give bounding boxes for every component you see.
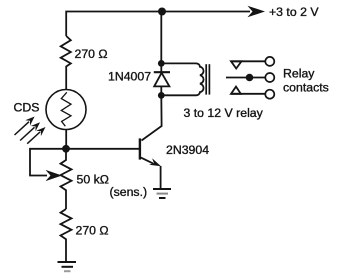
wire pot wiper [30, 149, 66, 176]
svg-text:2N3904: 2N3904 [166, 143, 209, 157]
svg-text:+3 to 2 V: +3 to 2 V [269, 5, 319, 19]
node diode top [158, 60, 165, 67]
svg-text:3 to 12 V relay: 3 to 12 V relay [184, 106, 264, 120]
relay core line 2 [208, 64, 210, 94]
contact NO terminal circle [265, 90, 274, 99]
relay contact NC line [231, 60, 265, 62]
resistor R1 270 ohm (top) [61, 36, 71, 70]
svg-text:50 kΩ: 50 kΩ [77, 173, 109, 187]
power arrow [248, 6, 266, 17]
transistor Q1 2N3904 [139, 138, 141, 159]
relay contact common line [226, 77, 265, 79]
light arrow 2 [20, 122, 40, 140]
svg-text:270 Ω: 270 Ω [76, 224, 109, 238]
wire node A to transistor base [66, 148, 139, 150]
relay coil K1 [161, 63, 203, 95]
node diode bottom [158, 92, 165, 99]
wire CDS to node A [65, 130, 67, 149]
wire emitter to ground [160, 166, 162, 189]
wire diode bottom to collector [142, 96, 162, 141]
potentiometer 50 kohm [61, 153, 72, 195]
contact NC terminal circle [265, 57, 274, 66]
light arrow 3 [27, 127, 45, 144]
wire top rail to diode [160, 12, 162, 73]
svg-text:(sens.): (sens.) [110, 185, 148, 199]
wire resistor to CDS [65, 70, 67, 90]
relay contact NO line [231, 93, 265, 95]
resistor R2 270 ohm (bottom) [61, 209, 72, 244]
contact common dot [246, 74, 254, 82]
svg-text:contacts: contacts [283, 80, 329, 94]
diode D1 1N4007 [154, 71, 170, 73]
ground (bottom left) [58, 262, 77, 271]
photoresistor CDS [46, 90, 86, 130]
relay core line 1 [205, 64, 207, 94]
contact NO triangle [231, 87, 241, 94]
svg-text:CDS: CDS [14, 101, 40, 115]
wire top supply rail [66, 12, 250, 37]
ground (sens.) [153, 189, 171, 198]
wiper arrow head [46, 170, 63, 181]
svg-text:270 Ω: 270 Ω [75, 47, 108, 61]
contact NC triangle [231, 61, 242, 68]
svg-text:1N4007: 1N4007 [108, 70, 151, 84]
node junction on top rail [158, 8, 166, 16]
wire pot to R2 [65, 194, 67, 209]
contact common terminal circle [265, 73, 274, 82]
node A junction [62, 145, 70, 153]
svg-text:Relay: Relay [283, 67, 315, 81]
wire R2 to ground [65, 244, 67, 262]
light arrow 1 [15, 117, 35, 136]
